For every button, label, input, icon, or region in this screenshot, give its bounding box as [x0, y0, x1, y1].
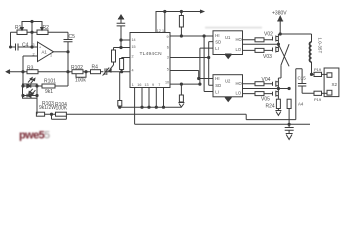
svg-text:10: 10	[165, 81, 169, 85]
svg-text:6: 6	[167, 45, 169, 49]
svg-text:C4: C4	[22, 43, 29, 49]
svg-text:U1: U1	[225, 35, 231, 40]
svg-text:SD: SD	[215, 39, 221, 44]
svg-text:LO: LO	[236, 91, 242, 96]
svg-text:V03: V03	[263, 54, 272, 60]
svg-text:V02: V02	[264, 32, 273, 38]
svg-text:R102: R102	[71, 65, 83, 71]
svg-text:C15: C15	[298, 76, 307, 81]
svg-text:LI: LI	[215, 46, 219, 51]
svg-text:100k: 100k	[75, 78, 86, 84]
svg-text:9k1/2W: 9k1/2W	[39, 105, 56, 111]
svg-text:3: 3	[33, 43, 35, 47]
svg-text:HO: HO	[236, 81, 243, 86]
svg-text:R101: R101	[44, 79, 56, 85]
svg-text:HI: HI	[215, 76, 219, 81]
svg-text:4: 4	[132, 69, 134, 73]
svg-text:pwe5: pwe5	[19, 130, 45, 142]
svg-text:P19: P19	[314, 97, 322, 102]
svg-text:TL494CN: TL494CN	[140, 51, 163, 57]
svg-text:11: 11	[162, 29, 166, 33]
svg-text:LI: LI	[215, 89, 219, 94]
svg-text:13: 13	[144, 83, 148, 87]
svg-text:9: 9	[152, 83, 154, 87]
svg-text:16: 16	[137, 83, 141, 87]
svg-text:R24: R24	[266, 104, 275, 110]
svg-text:5: 5	[44, 130, 50, 142]
svg-text:R4: R4	[92, 65, 99, 71]
svg-text:5: 5	[167, 67, 169, 71]
svg-text:SD: SD	[215, 83, 221, 88]
svg-text:HI: HI	[215, 33, 219, 38]
svg-text:12: 12	[157, 29, 161, 33]
svg-text:15: 15	[132, 45, 136, 49]
svg-text:HO: HO	[236, 37, 243, 42]
svg-text:+380V: +380V	[272, 11, 287, 17]
svg-text:P19: P19	[314, 67, 322, 72]
svg-text:V05: V05	[261, 97, 270, 103]
svg-text:7: 7	[158, 83, 160, 87]
svg-text:9k1: 9k1	[45, 89, 53, 95]
svg-text:R1: R1	[15, 25, 22, 31]
svg-text:LO: LO	[236, 47, 242, 52]
svg-text:V04: V04	[262, 77, 271, 83]
svg-text:100K: 100K	[56, 106, 68, 112]
svg-text:U2: U2	[225, 79, 231, 84]
svg-text:C5: C5	[69, 34, 76, 40]
svg-text:A4: A4	[298, 102, 304, 107]
svg-text:1: 1	[50, 54, 52, 58]
svg-text:R2: R2	[43, 25, 50, 31]
svg-text:2: 2	[132, 55, 134, 59]
svg-text:9: 9	[167, 35, 169, 39]
svg-text:1.0-35T: 1.0-35T	[317, 38, 322, 54]
svg-text:R3: R3	[27, 66, 34, 72]
svg-text:2: 2	[33, 53, 35, 57]
svg-text:1: 1	[132, 83, 134, 87]
svg-text:+: +	[39, 46, 41, 50]
svg-text:A1: A1	[42, 50, 48, 55]
svg-text:3: 3	[167, 55, 169, 59]
svg-text:X2: X2	[332, 82, 338, 87]
svg-text:14: 14	[132, 38, 136, 42]
